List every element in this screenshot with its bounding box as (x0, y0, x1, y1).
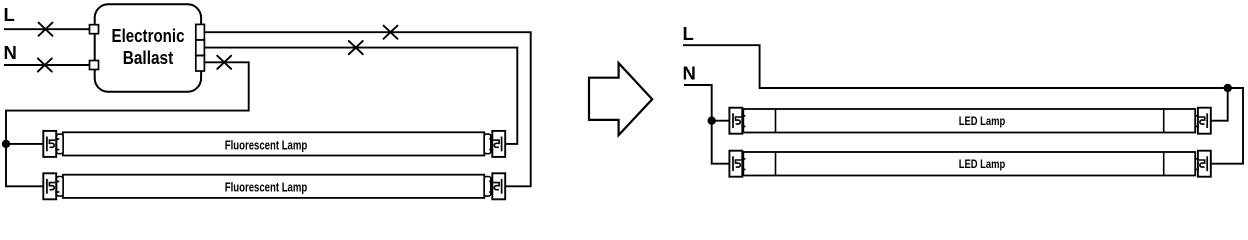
svg-text:L: L (4, 4, 15, 25)
svg-text:L: L (683, 23, 694, 44)
svg-text:Ballast: Ballast (123, 48, 174, 68)
svg-text:N: N (683, 63, 696, 84)
svg-text:Fluorescent Lamp: Fluorescent Lamp (225, 181, 308, 195)
svg-text:Fluorescent Lamp: Fluorescent Lamp (225, 138, 308, 152)
svg-text:LED Lamp: LED Lamp (959, 157, 1006, 171)
svg-text:LED Lamp: LED Lamp (959, 114, 1006, 128)
svg-text:N: N (4, 42, 17, 63)
svg-text:Electronic: Electronic (112, 26, 185, 46)
